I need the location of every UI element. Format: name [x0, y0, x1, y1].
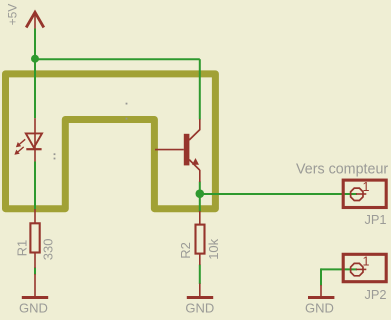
wire LED cathode to R1: [34, 162, 36, 210]
wire junction to right: [35, 58, 200, 60]
svg-text:R1: R1: [14, 240, 29, 257]
+5V supply symbol: [26, 12, 44, 28]
wire emitter to junction to R2: [199, 182, 201, 212]
ground GND2 (under R2): [185, 284, 214, 316]
emitter with arrow: [189, 160, 200, 171]
wire +5V to junction and down to LED: [34, 29, 36, 119]
svg-text:JP2: JP2: [364, 287, 386, 302]
wire junction to JP1: [200, 193, 357, 195]
collector: [189, 130, 200, 140]
svg-text:330: 330: [40, 238, 55, 260]
LED D1: [14, 118, 42, 161]
pin 1 pad octagon: [351, 263, 363, 275]
resistor R2: [196, 211, 205, 265]
wire down to transistor collector: [199, 59, 201, 119]
ground GND3 (under JP2): [305, 285, 334, 316]
wire R2 to GND: [199, 265, 201, 285]
connector JP2: [343, 254, 386, 302]
svg-text:GND: GND: [19, 301, 48, 316]
svg-text:10k: 10k: [206, 238, 221, 259]
pin 1 pad octagon: [351, 188, 363, 200]
origin cross marks (gray): [54, 103, 128, 160]
svg-text:1: 1: [363, 254, 370, 268]
opto-interrupter slot outline OK1: [6, 74, 216, 209]
svg-text:GND: GND: [185, 301, 214, 316]
emission arrow 2: [18, 147, 24, 152]
svg-text:GND: GND: [305, 301, 334, 316]
svg-text:+5V: +5V: [6, 4, 20, 26]
pin 1 line: [356, 193, 366, 195]
phototransistor T1: [155, 119, 200, 182]
svg-text:1: 1: [363, 180, 370, 194]
connector JP1: [343, 180, 386, 227]
junction dot A: [31, 55, 39, 63]
wire JP2 to corner: [321, 268, 357, 270]
emission arrow 1: [19, 139, 25, 144]
ground GND1 (under R1): [19, 274, 48, 316]
wire corner down to GND: [320, 268, 322, 285]
wire R1 to GND: [34, 268, 36, 275]
svg-text:JP1: JP1: [364, 212, 386, 227]
resistor R1: [30, 209, 39, 268]
pin 1 line: [356, 268, 366, 270]
junction dot B: [196, 189, 205, 198]
svg-text:Vers compteur: Vers compteur: [296, 162, 388, 178]
svg-text:R2: R2: [178, 242, 193, 259]
